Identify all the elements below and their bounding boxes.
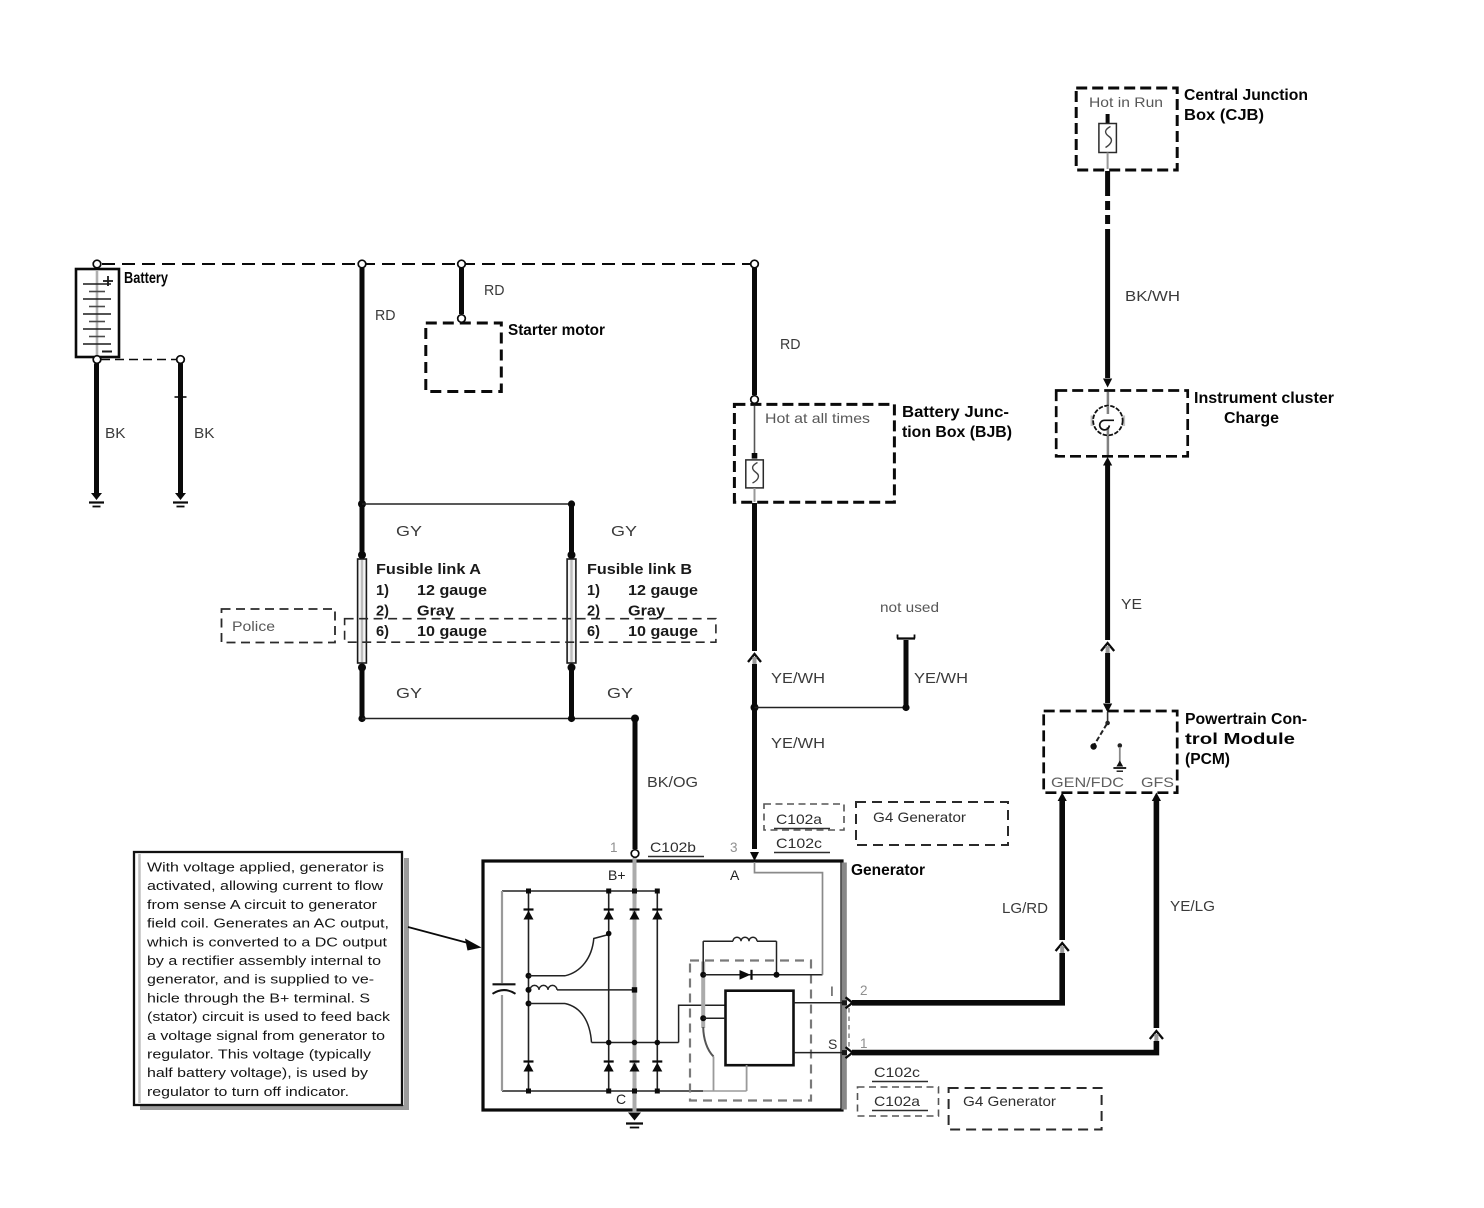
node: junction GY right bottom bbox=[568, 715, 575, 722]
svg-text:field coil. Generates an AC ou: field coil. Generates an AC output, bbox=[147, 916, 389, 931]
wire BK/WH lower bbox=[1105, 229, 1110, 378]
svg-text:Box (CJB): Box (CJB) bbox=[1184, 107, 1264, 124]
svg-text:LG/RD: LG/RD bbox=[1002, 900, 1048, 917]
wire inside BJB to fuse bbox=[754, 406, 756, 454]
ground G1 bbox=[89, 493, 104, 507]
inline connector on YE/WH bbox=[748, 654, 761, 664]
wire RD to starter motor bbox=[459, 268, 464, 314]
node: junction GY right top bbox=[568, 500, 575, 507]
node: fuse top blob bbox=[752, 453, 758, 459]
capacitor branch wire lower bbox=[501, 995, 503, 1091]
wire stator sense to regulator bbox=[679, 1005, 726, 1042]
powertrain control module PCM box bbox=[1044, 711, 1178, 793]
diode D4 bbox=[652, 910, 662, 920]
connector C102a dashed box (bottom) bbox=[858, 1087, 939, 1116]
inline connector on YE bbox=[1101, 643, 1114, 653]
wire LG/RD vertical lower + horizontal to generator I bbox=[852, 953, 1062, 1003]
wire BK/OG bbox=[633, 720, 638, 849]
svg-text:10 gauge: 10 gauge bbox=[628, 624, 698, 640]
police option dashed box bbox=[222, 609, 336, 643]
node: BJB terminal bbox=[751, 396, 759, 404]
wire LG/RD vertical upper bbox=[1059, 798, 1065, 940]
transistor Q1 (field driver) bbox=[703, 1027, 713, 1091]
junction squares on top rail bbox=[526, 889, 660, 894]
svg-text:2): 2) bbox=[376, 604, 389, 620]
underline C102a bbox=[774, 828, 830, 830]
battery B1 bbox=[76, 269, 119, 357]
node: junction RD/GY left bbox=[358, 500, 366, 508]
svg-text:10 gauge: 10 gauge bbox=[417, 624, 487, 640]
underline C102a bottom bbox=[872, 1110, 928, 1112]
charge indicator lamp bbox=[1091, 406, 1126, 436]
svg-text:B+: B+ bbox=[608, 867, 626, 883]
connector C102a dashed box (top) bbox=[764, 804, 844, 830]
wire BK/WH dashed section bbox=[1105, 201, 1110, 210]
wire: GY bottom link bbox=[362, 718, 635, 720]
node: battery negative terminal bbox=[93, 356, 101, 364]
svg-text:regulator to turn off indicato: regulator to turn off indicator. bbox=[147, 1084, 349, 1099]
diode D8 bbox=[652, 1062, 662, 1072]
svg-text:regulator. This voltage (typic: regulator. This voltage (typically bbox=[147, 1047, 371, 1062]
wire YE/WH lower bbox=[752, 664, 757, 849]
svg-text:YE/WH: YE/WH bbox=[914, 670, 968, 687]
instrument cluster box bbox=[1056, 391, 1188, 457]
wire below CJB fuse bbox=[1107, 153, 1109, 170]
note text box bbox=[134, 852, 409, 1110]
svg-text:GY: GY bbox=[396, 685, 422, 702]
svg-text:from sense A circuit to genera: from sense A circuit to generator bbox=[147, 897, 378, 912]
wire: dashed power bus from battery positive bbox=[102, 263, 750, 265]
svg-text:Hot in Run: Hot in Run bbox=[1089, 94, 1163, 110]
node: junction GY / BK-OG bbox=[631, 715, 639, 723]
rectifier bottom rail bbox=[502, 1090, 703, 1092]
node below fusible link B bbox=[568, 664, 576, 672]
arrow into generator A terminal bbox=[750, 852, 759, 861]
svg-text:1: 1 bbox=[610, 840, 618, 855]
svg-text:6): 6) bbox=[587, 624, 600, 640]
svg-text:Central Junction: Central Junction bbox=[1184, 87, 1308, 104]
wire RD to fusible links bbox=[360, 268, 365, 502]
arrow into instrument cluster top bbox=[1103, 379, 1112, 388]
wire: GY top link bbox=[362, 503, 572, 505]
wire RD to BJB bbox=[752, 268, 757, 395]
svg-text:1: 1 bbox=[860, 1036, 868, 1051]
battery junction box BJB bbox=[734, 404, 894, 502]
pointer arrow from note to generator bbox=[408, 927, 482, 951]
stator phase upper bbox=[526, 931, 612, 979]
wire bus tap to IC bbox=[700, 1015, 725, 1021]
svg-text:Battery Junc-: Battery Junc- bbox=[902, 404, 1009, 421]
fuse element in BJB bbox=[746, 460, 764, 488]
rectifier column 2 bbox=[608, 891, 610, 1091]
svg-text:GFS: GFS bbox=[1141, 774, 1174, 790]
svg-text:With voltage applied, generato: With voltage applied, generator is bbox=[147, 860, 384, 875]
svg-text:(PCM): (PCM) bbox=[1185, 751, 1230, 768]
node: bus terminal above BJB bbox=[751, 260, 759, 268]
underline C102c bbox=[774, 852, 830, 854]
svg-text:a voltage signal from generato: a voltage signal from generator to bbox=[147, 1028, 385, 1043]
wire: dashed link battery negative to second ground lead bbox=[101, 359, 177, 361]
wire below fuse inside BJB bbox=[754, 488, 756, 502]
gray B+ bus through generator bbox=[633, 858, 637, 1112]
svg-text:YE: YE bbox=[1121, 596, 1142, 613]
G4 Generator dashed box (bottom) bbox=[949, 1088, 1102, 1130]
svg-text:YE/LG: YE/LG bbox=[1170, 898, 1215, 915]
svg-text:Fusible link B: Fusible link B bbox=[587, 562, 692, 578]
diode D1 bbox=[524, 910, 534, 920]
svg-text:12 gauge: 12 gauge bbox=[417, 583, 487, 599]
wire from A terminal to regulator diode bbox=[755, 862, 823, 975]
node above fusible link A bbox=[358, 551, 366, 559]
ground G2 bbox=[173, 493, 188, 507]
fusible link A specs bbox=[376, 583, 487, 640]
voltage regulator dashed box bbox=[690, 961, 811, 1101]
node: I pin at case bbox=[842, 1000, 847, 1005]
svg-text:GEN/FDC: GEN/FDC bbox=[1051, 774, 1124, 790]
wire YE/WH upper bbox=[752, 503, 757, 651]
svg-text:1): 1) bbox=[587, 583, 600, 599]
wire YE/LG vertical upper bbox=[1154, 798, 1160, 1028]
svg-text:RD: RD bbox=[780, 336, 801, 353]
regulator IC box bbox=[726, 991, 794, 1065]
node: stub junction bbox=[902, 704, 909, 711]
svg-text:Gray: Gray bbox=[417, 604, 454, 620]
node: splice YE/WH bbox=[751, 704, 759, 712]
gray extension of bottom rail bbox=[703, 1090, 746, 1092]
rectifier column 3 bbox=[656, 891, 658, 1091]
arrow into PCM bottom GFS bbox=[1152, 793, 1161, 802]
wire YE lower bbox=[1105, 653, 1110, 703]
fusible link B element bbox=[567, 559, 576, 663]
svg-text:(stator) circuit is used to fe: (stator) circuit is used to feed back bbox=[147, 1009, 390, 1024]
arrow out of cluster bottom bbox=[1103, 457, 1112, 466]
svg-text:hicle through the B+ terminal.: hicle through the B+ terminal. S bbox=[147, 990, 370, 1005]
node: starter motor terminal bbox=[458, 315, 466, 323]
junction squares on bottom rail bbox=[526, 1089, 660, 1094]
node: S pin at case bbox=[842, 1050, 847, 1055]
svg-text:C: C bbox=[616, 1091, 626, 1107]
node below fusible link A bbox=[358, 664, 366, 672]
rectifier column 1 bbox=[528, 891, 530, 1091]
svg-text:BK/WH: BK/WH bbox=[1125, 288, 1180, 305]
svg-text:BK: BK bbox=[105, 425, 126, 442]
stator phase lower bbox=[526, 1001, 679, 1046]
svg-text:Fusible link A: Fusible link A bbox=[376, 562, 482, 578]
svg-text:2): 2) bbox=[587, 604, 600, 620]
svg-text:GY: GY bbox=[611, 523, 637, 540]
svg-text:YE/WH: YE/WH bbox=[771, 735, 825, 752]
node: bus terminal above fusible link feed bbox=[358, 260, 366, 268]
connector chevron at S output bbox=[846, 1047, 853, 1058]
G4 Generator dashed box (top) bbox=[856, 802, 1008, 845]
fuse element in CJB bbox=[1099, 124, 1117, 153]
svg-text:GY: GY bbox=[607, 685, 633, 702]
node: second ground lead terminal bbox=[177, 356, 185, 364]
capacitor C bbox=[493, 984, 516, 994]
underline C102c bottom bbox=[872, 1081, 928, 1083]
svg-text:I: I bbox=[830, 983, 834, 999]
svg-text:BK/OG: BK/OG bbox=[647, 774, 698, 791]
wire IC bottom to rail bbox=[746, 1065, 748, 1091]
node: bus terminal above starter motor bbox=[458, 260, 466, 268]
svg-text:A: A bbox=[730, 867, 740, 883]
diode D6 bbox=[604, 1062, 614, 1072]
police option dashed region across links bbox=[345, 619, 716, 643]
switch inside PCM bbox=[1090, 712, 1109, 750]
wire BK second ground lead bbox=[178, 364, 183, 494]
wire BK/WH upper bbox=[1105, 171, 1110, 196]
wire GY above fusible link A bbox=[360, 506, 365, 552]
svg-text:YE/WH: YE/WH bbox=[771, 670, 825, 687]
central junction box CJB bbox=[1076, 88, 1177, 170]
diode D2 bbox=[604, 910, 614, 920]
svg-text:tion Box (BJB): tion Box (BJB) bbox=[902, 424, 1012, 441]
svg-text:trol Module: trol Module bbox=[1185, 731, 1295, 748]
splice tick on BK wire bbox=[175, 396, 187, 398]
wire: not used stub bbox=[904, 640, 909, 706]
wire IC to S output bbox=[794, 1052, 848, 1054]
svg-text:C102c: C102c bbox=[874, 1064, 920, 1080]
underline C102b bbox=[648, 856, 704, 858]
connector chevron at I output bbox=[846, 997, 853, 1008]
node: junction GY left bottom bbox=[358, 715, 365, 722]
fusible link A element bbox=[358, 559, 367, 663]
inline connector on YE/LG bbox=[1150, 1031, 1163, 1041]
svg-text:2: 2 bbox=[860, 983, 868, 998]
svg-text:12 gauge: 12 gauge bbox=[628, 583, 698, 599]
wire through cluster bbox=[1107, 392, 1110, 455]
terminator of not used stub bbox=[897, 635, 915, 639]
wire BK battery negative bbox=[94, 364, 99, 494]
arrow into PCM top bbox=[1103, 704, 1112, 713]
svg-text:6): 6) bbox=[376, 624, 389, 640]
stator phase middle (coil) bbox=[526, 985, 638, 993]
field coil above regulator bbox=[703, 937, 776, 975]
internal ground symbol in PCM bbox=[1113, 743, 1126, 771]
svg-text:Instrument cluster: Instrument cluster bbox=[1194, 390, 1334, 407]
svg-text:C102c: C102c bbox=[776, 835, 822, 851]
svg-text:Battery: Battery bbox=[124, 270, 168, 287]
rectifier top rail bbox=[502, 890, 657, 892]
svg-text:C102a: C102a bbox=[776, 811, 822, 827]
wire GY below fusible link B bbox=[569, 669, 574, 716]
diode D5 bbox=[524, 1062, 534, 1072]
generator box bbox=[483, 861, 847, 1110]
svg-text:Police: Police bbox=[232, 618, 275, 634]
svg-text:G4 Generator: G4 Generator bbox=[963, 1093, 1056, 1109]
svg-text:half battery voltage), is used: half battery voltage), is used by bbox=[147, 1065, 368, 1080]
svg-text:Hot at all times: Hot at all times bbox=[765, 410, 870, 426]
svg-text:C102a: C102a bbox=[874, 1093, 920, 1109]
svg-text:which is converted to a DC out: which is converted to a DC output bbox=[146, 934, 388, 949]
svg-text:C102b: C102b bbox=[650, 839, 696, 855]
svg-text:generator, and is supplied to: generator, and is supplied to ve- bbox=[147, 972, 374, 987]
node: generator B+ terminal bbox=[631, 850, 639, 858]
svg-text:Charge: Charge bbox=[1224, 410, 1279, 427]
svg-text:not used: not used bbox=[880, 599, 939, 615]
wire: link to not-used stub bbox=[755, 707, 907, 709]
svg-text:RD: RD bbox=[375, 307, 396, 324]
diode D7 bbox=[630, 1062, 640, 1072]
capacitor branch wire upper bbox=[501, 891, 503, 983]
svg-text:Generator: Generator bbox=[851, 862, 925, 879]
wire GY below fusible link A bbox=[360, 669, 365, 716]
svg-text:by a rectifier assembly intern: by a rectifier assembly internal to bbox=[147, 953, 381, 968]
svg-text:activated, allowing current to: activated, allowing current to flow bbox=[147, 878, 383, 893]
svg-text:RD: RD bbox=[484, 282, 505, 299]
wire GY above fusible link B bbox=[569, 506, 574, 552]
wire stub to CJB fuse bbox=[1106, 114, 1110, 123]
svg-text:Gray: Gray bbox=[628, 604, 665, 620]
svg-text:1): 1) bbox=[376, 583, 389, 599]
arrow into PCM bottom GEN/FDC bbox=[1058, 793, 1067, 802]
wire YE/LG vertical lower + horizontal to generator S bbox=[852, 1041, 1156, 1053]
wire YE upper bbox=[1105, 463, 1110, 640]
diode row in regulator bbox=[700, 970, 822, 980]
svg-text:Powertrain Con-: Powertrain Con- bbox=[1185, 711, 1307, 728]
wire IC to I output bbox=[794, 1002, 848, 1004]
diode D3 bbox=[630, 910, 640, 920]
gray bus inside regulator bbox=[701, 962, 705, 1029]
node: battery positive terminal bbox=[93, 260, 101, 268]
svg-text:Starter motor: Starter motor bbox=[508, 322, 605, 339]
starter motor box bbox=[426, 323, 502, 392]
svg-text:3: 3 bbox=[730, 840, 738, 855]
svg-text:S: S bbox=[828, 1036, 837, 1052]
inline connector on LG/RD bbox=[1056, 943, 1069, 953]
ground below generator C terminal bbox=[626, 1113, 643, 1128]
svg-text:BK: BK bbox=[194, 425, 215, 442]
dashed connector link between generator pins bbox=[848, 1008, 850, 1047]
svg-text:GY: GY bbox=[396, 523, 422, 540]
fusible link B specs bbox=[587, 583, 698, 640]
note text bbox=[146, 860, 391, 1099]
svg-text:G4 Generator: G4 Generator bbox=[873, 809, 966, 825]
node above fusible link B bbox=[568, 551, 576, 559]
